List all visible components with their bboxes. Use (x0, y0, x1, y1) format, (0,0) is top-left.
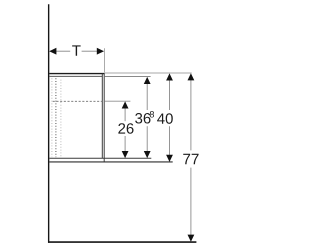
dimension 77 label (183, 154, 190, 164)
top reference extension line to dimension 77 (105, 72, 192, 74)
shelf extension line to dimension 26 (104, 100, 130, 102)
dimension 77 bottom arrow (188, 235, 195, 242)
floor line (48, 241, 196, 243)
shelf dashed line (53, 100, 102, 102)
cabinet top inner edge (49, 75, 102, 77)
dimension 36.8 label (135, 113, 142, 124)
dimension T extension line (104, 48, 106, 72)
dimension 40 line lower segment (169, 126, 171, 161)
hidden rail dotted line middle (55, 78, 57, 157)
dimension 26 line lower segment (124, 136, 126, 158)
dimension 40 top arrow (166, 73, 173, 80)
cabinet front outer edge (103, 73, 105, 162)
dimension 26 label (118, 123, 125, 133)
dimension 36.8 bottom arrow (144, 151, 151, 158)
wall line (48, 4, 50, 243)
dimension 77 line lower segment (190, 168, 192, 241)
cabinet interior bottom line / baseline for 26 and 36.8 (49, 157, 151, 159)
cabinet top outer edge (49, 73, 104, 75)
dimension T right arrow (97, 48, 104, 55)
dimension 36.8 superscript label (150, 111, 154, 117)
dimension 40 label (157, 113, 165, 123)
hidden rail dotted line left (51, 78, 53, 157)
dimension 36.8 line lower segment (146, 126, 148, 157)
dimension 40 line upper segment (169, 74, 171, 110)
dimension 77 line upper segment (190, 74, 192, 150)
dimension 40 bottom arrow (166, 155, 173, 162)
dimension 36.8 top arrow (144, 77, 151, 84)
dimension T line right segment (82, 50, 104, 52)
dimension 26 bottom arrow (122, 151, 129, 158)
top inner reference extension line to dimension 36.8 (105, 75, 151, 77)
dimension 77 top arrow (188, 73, 195, 80)
dimension 36.8 line upper segment (146, 78, 148, 110)
cabinet front inner edge (101, 74, 103, 159)
dimension 26 line upper segment (124, 103, 126, 122)
dimension T left arrow (49, 48, 56, 55)
hidden rail dotted line right (60, 80, 62, 158)
dimension T line left segment (50, 50, 70, 52)
cabinet underside line / baseline for 40 (49, 161, 172, 163)
dimension 26 top arrow (122, 101, 129, 108)
dimension T label (72, 45, 80, 55)
